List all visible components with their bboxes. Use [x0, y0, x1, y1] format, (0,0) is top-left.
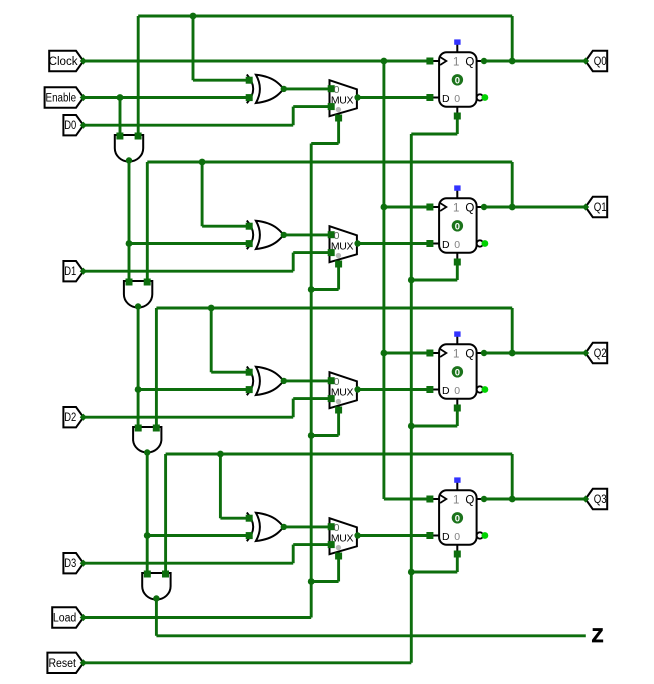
wire XOR1 out to MUX1 input 0 [284, 87, 330, 90]
junction load rail MUX4 select [308, 578, 315, 585]
output pin Q0 [582, 51, 607, 71]
wire FF3 Q to pin Q2 [484, 352, 586, 355]
wire Q2 feedback branch down to XOR3 [210, 308, 213, 372]
wire clock branch to FF2 [384, 206, 430, 209]
wire D3 jog up [292, 545, 295, 564]
wire Q1 feedback branch down to XOR2 [201, 162, 204, 226]
svg-text:0: 0 [455, 75, 460, 86]
svg-text:1: 1 [453, 57, 459, 69]
junction Q0 feedback to XOR1 [190, 13, 197, 20]
wire A4 out down to Z line [155, 599, 158, 636]
wire Q1 feedback into XOR2 A input [202, 225, 251, 228]
input pin D2 [63, 407, 87, 427]
junction clock rail at FF2 row [381, 204, 388, 211]
junction clock rail at FF3 row [381, 350, 388, 357]
wire Q3 feedback branch down to XOR4 [219, 454, 222, 518]
d flip-flop FF2 [426, 185, 488, 265]
wire D2 jog up [292, 399, 295, 418]
input pin Clock [49, 51, 87, 71]
wire Z carry line [156, 634, 585, 637]
svg-text:Q3: Q3 [594, 494, 607, 506]
junction A1 out to XOR2 [126, 240, 133, 247]
junction reset rail FF4 [408, 569, 415, 576]
junction Q0 output [509, 58, 516, 65]
wire Q0 feedback riser [511, 16, 514, 61]
svg-text:0: 0 [334, 230, 340, 242]
wire Q2 feedback into XOR3 A input [211, 371, 251, 374]
wire D1 to MUX2 input 1 [293, 251, 329, 254]
svg-text:0: 0 [454, 239, 460, 251]
wire MUX4 select to load rail [311, 580, 338, 583]
and gate A2 [124, 279, 152, 310]
svg-text:D3: D3 [64, 558, 76, 570]
wire A1 out to XOR2 B input [129, 242, 252, 245]
wire MUX1 select to load rail [311, 142, 338, 145]
xor gate X1 [246, 75, 287, 104]
and gate A3 [133, 425, 161, 456]
xor gate X3 [246, 367, 287, 396]
input pin D1 [63, 261, 87, 281]
input pin D3 [63, 553, 87, 573]
and gate A1 [115, 133, 143, 164]
wire A2 out down [137, 307, 140, 429]
wire FF1 reset to rail [411, 133, 457, 136]
svg-text:0: 0 [455, 513, 460, 524]
output pin Q3 [582, 489, 607, 509]
wire MUX3 select down [337, 410, 340, 436]
mux MUX3 [328, 372, 361, 413]
svg-text:Q: Q [465, 495, 474, 507]
wire FF4 Q to pin Q3 [484, 498, 586, 501]
xor gate X2 [246, 221, 287, 250]
wire D3 pin line [83, 562, 293, 565]
wire Q0 feedback into XOR1 A input [193, 79, 252, 82]
wire MUX2 select down [337, 264, 340, 290]
wire FF4 reset to rail [411, 571, 457, 574]
wire FF1 Q to pin Q0 [484, 60, 586, 63]
junction Q1 feedback to XOR2 [199, 159, 206, 166]
wire D0 to MUX1 input 1 [293, 105, 329, 108]
wire MUX1 select down [337, 118, 340, 144]
wire FF2 Q to pin Q1 [484, 206, 586, 209]
wire FF2 reset to rail [411, 279, 457, 282]
svg-text:Q0: Q0 [594, 56, 607, 68]
svg-text:Reset: Reset [48, 658, 76, 670]
output pin Q2 [582, 343, 607, 363]
wire load rail vertical [310, 144, 313, 618]
wire Q1 feedback down to A2 input [146, 162, 149, 282]
wire Reset pin line [83, 661, 411, 664]
wire FF2 reset pin down [456, 262, 459, 280]
wire reset rail vertical [410, 134, 413, 663]
svg-text:D2: D2 [64, 412, 76, 424]
wire XOR3 out to MUX3 input 0 [284, 379, 330, 382]
svg-text:D: D [442, 93, 450, 105]
wire Q1 feedback line [147, 161, 512, 164]
junction Q2 feedback to XOR3 [208, 305, 215, 312]
svg-text:0: 0 [455, 367, 460, 378]
junction reset rail FF2 [408, 277, 415, 284]
junction A3 out to XOR4 [144, 532, 151, 539]
wire Q2 feedback line [156, 307, 512, 310]
wire MUX1 out to FF1 D [358, 96, 430, 99]
wire Q3 feedback down to A4 input [164, 454, 167, 574]
wire XOR2 out to MUX2 input 0 [284, 233, 330, 236]
wire clock rail vertical [382, 61, 385, 499]
svg-text:0: 0 [334, 376, 340, 388]
wire D0 jog up [292, 107, 295, 126]
svg-text:0: 0 [454, 93, 460, 105]
xor gate X4 [246, 513, 287, 542]
junction Q3 feedback to XOR4 [217, 451, 224, 458]
svg-text:0: 0 [454, 385, 460, 397]
input pin Load [52, 607, 87, 627]
svg-text:Clock: Clock [49, 56, 78, 68]
wire D1 jog up [292, 253, 295, 272]
mux MUX4 [328, 518, 361, 559]
svg-text:Q1: Q1 [594, 202, 607, 214]
svg-text:D: D [442, 531, 450, 543]
svg-text:0: 0 [334, 522, 340, 534]
wire XOR4 out to MUX4 input 0 [284, 525, 330, 528]
svg-text:D1: D1 [64, 266, 76, 278]
wire FF1 reset pin down [456, 116, 459, 134]
wire Q3 feedback into XOR4 A input [220, 517, 251, 520]
wire Enable down to A1 input [119, 98, 122, 137]
wire Enable pin to XOR1 B input [83, 96, 251, 99]
wire A3 out down [146, 453, 149, 575]
junction reset rail FF3 [408, 423, 415, 430]
wire Q0 feedback line [138, 15, 512, 18]
wire FF4 reset pin down [456, 554, 459, 572]
junction clock rail at FF1 row [381, 58, 388, 65]
mux MUX2 [328, 226, 361, 267]
svg-text:1: 1 [453, 203, 459, 215]
wire MUX2 select to load rail [311, 288, 338, 291]
svg-text:Q: Q [465, 57, 474, 69]
junction Enable branch [117, 94, 124, 101]
svg-text:Enable: Enable [46, 93, 77, 105]
wire MUX2 out to FF2 D [358, 242, 430, 245]
svg-text:1: 1 [453, 495, 459, 507]
wire Q3 feedback line [166, 453, 513, 456]
wire Q2 feedback down to A3 input [155, 308, 158, 428]
wire FF3 reset to rail [411, 425, 457, 428]
wire D1 pin line [83, 270, 293, 273]
wire MUX3 out to FF3 D [358, 388, 430, 391]
input pin Reset [47, 653, 87, 673]
wire A3 out to XOR4 B input [147, 534, 251, 537]
junction Q3 output [509, 496, 516, 503]
d flip-flop FF3 [426, 331, 488, 411]
wire FF3 reset pin down [456, 408, 459, 426]
wire D3 to MUX4 input 1 [293, 543, 329, 546]
d flip-flop FF4 [426, 477, 488, 557]
svg-text:0: 0 [334, 84, 340, 96]
wire Q0 feedback down to A1 input [137, 16, 140, 136]
input pin Enable [45, 87, 87, 107]
junction Q2 output [509, 350, 516, 357]
svg-text:D: D [442, 239, 450, 251]
wire MUX4 out to FF4 D [358, 534, 430, 537]
wire A2 out to XOR3 B input [138, 388, 251, 391]
wire D0 pin line [83, 124, 293, 127]
wire Q3 feedback riser [511, 454, 514, 499]
svg-text:Q: Q [465, 349, 474, 361]
svg-text:Z: Z [592, 626, 604, 647]
svg-text:Q2: Q2 [594, 348, 607, 360]
svg-text:D0: D0 [64, 120, 76, 132]
junction load rail MUX3 select [308, 432, 315, 439]
wire D2 pin line [83, 416, 293, 419]
wire MUX4 select down [337, 556, 340, 582]
input pin D0 [63, 115, 87, 135]
wire A1 out down [128, 161, 131, 283]
d flip-flop FF1 [426, 39, 488, 119]
wire clock branch to FF3 [384, 352, 430, 355]
svg-text:Q: Q [465, 203, 474, 215]
junction A2 out to XOR3 [135, 386, 142, 393]
wire Clock pin to FF1 clock [83, 60, 430, 63]
wire Q0 feedback branch down to XOR1 [192, 16, 195, 80]
junction Q1 output [509, 204, 516, 211]
svg-text:Load: Load [53, 613, 76, 625]
svg-text:1: 1 [453, 349, 459, 361]
wire Load pin line [83, 616, 311, 619]
node Z label [592, 626, 604, 647]
svg-text:D: D [442, 385, 450, 397]
wire Q1 feedback riser [511, 162, 514, 207]
output pin Q1 [582, 197, 607, 217]
wire clock branch to FF4 [384, 498, 430, 501]
and gate A4 [142, 571, 170, 602]
wire D2 to MUX3 input 1 [293, 397, 329, 400]
wire MUX3 select to load rail [311, 434, 338, 437]
junction load rail MUX2 select [308, 286, 315, 293]
svg-text:0: 0 [455, 221, 460, 232]
wire Q2 feedback riser [511, 308, 514, 353]
mux MUX1 [328, 80, 361, 121]
svg-text:0: 0 [454, 531, 460, 543]
